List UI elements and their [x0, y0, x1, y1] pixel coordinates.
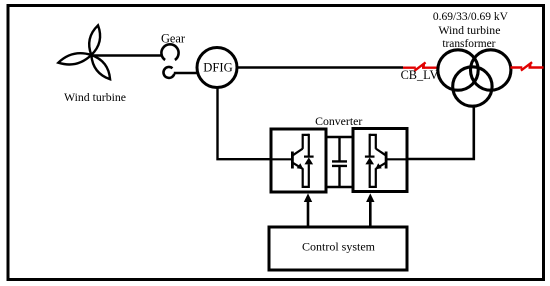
svg-text:Wind turbine: Wind turbine: [64, 90, 126, 104]
svg-text:CB_LV: CB_LV: [401, 68, 439, 82]
transformer T1 secondary winding: [471, 50, 511, 90]
capacitor C1 (DC link): [332, 137, 347, 187]
transformer T1 primary winding: [438, 50, 478, 90]
control signal arrow to rotor-side converter: [307, 200, 310, 227]
control system box: [269, 227, 407, 270]
wire: gear to DFIG: [174, 72, 198, 74]
collector stroke: [293, 149, 303, 156]
circuit breaker CB_LV (red): [403, 62, 438, 70]
wind turbine rotor blade (left): [58, 53, 91, 64]
wire: DC link top rail: [326, 136, 353, 138]
diode branch: [303, 134, 309, 187]
transformer T1 tertiary winding: [453, 67, 492, 106]
diode cathode bar: [304, 156, 314, 158]
svg-text:Control system: Control system: [302, 240, 376, 254]
emitter arrow: [297, 163, 304, 169]
generator DFIG: [197, 48, 237, 88]
diode triangle: [305, 157, 314, 164]
svg-text:transformer: transformer: [442, 38, 495, 50]
svg-text:Converter: Converter: [315, 114, 362, 128]
wire: DC link bottom rail: [326, 186, 353, 188]
wire: grid-side converter to transformer tertiary: [407, 106, 474, 160]
IGBT valve Q1 with anti-parallel diode D1: [271, 134, 314, 187]
wind turbine rotor blade (up): [89, 25, 100, 55]
svg-text:Wind turbine: Wind turbine: [438, 23, 500, 37]
gearbox upper wheel: [161, 44, 178, 60]
circuit breaker HV side (red): [511, 62, 544, 70]
collector branch: [303, 135, 309, 149]
IGBT valve Q2 with anti-parallel diode D2 (mirrored): [365, 134, 408, 187]
emitter stroke: [293, 163, 303, 169]
control signal arrow to grid-side converter: [369, 200, 372, 227]
converter grid-side box: [353, 129, 407, 192]
gearbox lower wheel: [163, 67, 174, 78]
svg-text:Gear: Gear: [161, 31, 186, 45]
wire: DFIG rotor down and right to rotor-side converter: [218, 87, 272, 159]
wind turbine rotor blade (lower right): [91, 55, 110, 79]
svg-text:0.69/33/0.69 kV: 0.69/33/0.69 kV: [433, 11, 509, 23]
wire: DFIG stator to CB_LV: [237, 66, 403, 69]
svg-text:DFIG: DFIG: [203, 61, 232, 75]
wire: turbine shaft to gear: [91, 54, 162, 56]
converter rotor-side box: [271, 129, 326, 192]
gate bar: [291, 152, 294, 169]
gate lead: [271, 158, 292, 160]
